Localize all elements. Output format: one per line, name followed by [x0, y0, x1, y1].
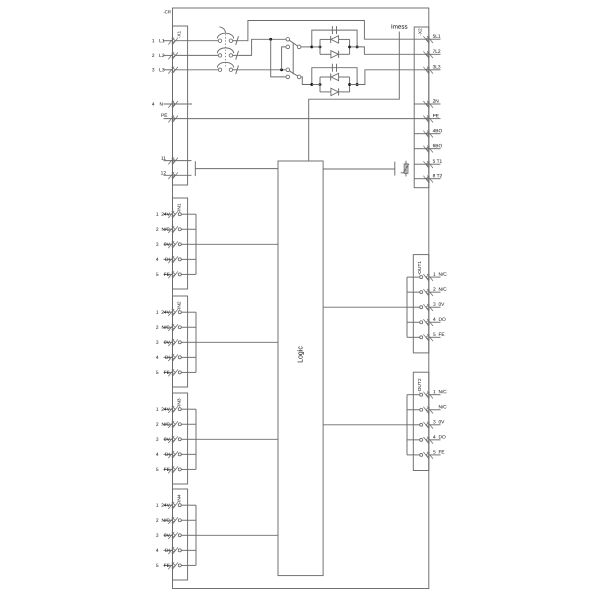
- wire L1 to top rail: [238, 21, 428, 41]
- node V2 rail right: [356, 83, 359, 86]
- svg-text:3: 3: [433, 419, 436, 425]
- terminal 5 T1 outer stub: [429, 163, 441, 165]
- IN1 pin 5 wire: [181, 273, 196, 275]
- svg-text:4: 4: [433, 434, 436, 440]
- terminal 11 stub: [164, 160, 192, 162]
- OUT2 terminal 5 FE outer stub: [429, 454, 441, 456]
- svg-text:DI: DI: [165, 257, 170, 263]
- node V2 loop right: [348, 83, 351, 86]
- IN4 pin 4: [178, 549, 181, 552]
- terminal 8 T2 connector symbol: [423, 176, 433, 184]
- svg-text:Logic: Logic: [297, 346, 304, 363]
- input block IN1: [173, 198, 188, 289]
- terminal 2N outer stub: [429, 103, 441, 105]
- node V2 loop left: [319, 83, 322, 86]
- svg-text:0V: 0V: [164, 340, 171, 346]
- OUT2 pin 0V wire: [407, 424, 420, 426]
- terminal 1 L1 stub: [164, 40, 173, 42]
- OUT1 pin N/C wire: [407, 276, 420, 278]
- OUT2 terminal N/C outer stub: [429, 409, 441, 411]
- svg-text:-IN3: -IN3: [176, 398, 182, 407]
- svg-text:-IN4: -IN4: [176, 494, 182, 503]
- svg-text:2N: 2N: [433, 99, 440, 105]
- changeover contact S2: [286, 68, 301, 79]
- node L2 junction: [269, 38, 272, 41]
- wire V1 output to terminal 7L2: [357, 47, 429, 54]
- svg-text:24V: 24V: [161, 310, 170, 316]
- node V1 rail left: [310, 45, 313, 48]
- svg-text:-IN1: -IN1: [176, 203, 182, 212]
- svg-text:FE: FE: [438, 450, 444, 456]
- IN1 terminal 5 FE stub: [164, 273, 173, 275]
- wire L3 row: [238, 69, 286, 71]
- output block OUT2: [413, 372, 429, 470]
- IN3 terminal 1 24V stub: [164, 408, 173, 410]
- svg-text:DI: DI: [165, 548, 170, 554]
- circuit breaker Q1 pole L3: [175, 62, 239, 74]
- supply bus 11-12: [194, 161, 196, 176]
- svg-text:-IN2: -IN2: [176, 301, 182, 310]
- IN3 pin 3 wire: [181, 438, 196, 440]
- IN1 pin 3: [178, 243, 181, 246]
- thyristor V1a: [330, 36, 332, 43]
- OUT1 terminal 5 FE connector symbol: [423, 334, 433, 342]
- OUT2 terminal 1 N/C connector symbol: [423, 392, 433, 400]
- IN3 pin 4: [178, 453, 181, 456]
- circuit breaker Q1 pole L2: [175, 48, 239, 60]
- IN4 terminal 3 0V connector symbol: [168, 532, 178, 540]
- IN4 terminal 1 24V stub: [164, 504, 173, 506]
- IN4 pin 2 wire: [181, 519, 196, 521]
- svg-text:5: 5: [433, 332, 436, 338]
- OUT1 terminal 3 0V outer stub: [429, 306, 441, 308]
- IN3 terminal 4 DI connector symbol: [168, 451, 178, 459]
- svg-text:PE: PE: [161, 113, 167, 119]
- IN4 terminal 3 0V stub: [164, 534, 173, 536]
- svg-text:3: 3: [156, 242, 159, 248]
- OUT1 pin 0V: [420, 306, 423, 309]
- svg-text:5: 5: [156, 563, 159, 569]
- svg-text:N/C: N/C: [162, 518, 171, 524]
- OUT2 pin FE: [420, 453, 423, 456]
- terminal block X2: [414, 27, 429, 188]
- IN3 pin 5: [178, 468, 181, 471]
- svg-text:FE: FE: [438, 332, 444, 338]
- IN2 terminal 1 24V connector symbol: [168, 309, 178, 317]
- svg-text:-X1: -X1: [176, 30, 182, 38]
- IN1 terminal 1 24V connector symbol: [168, 211, 178, 219]
- wire V2 output to terminal 3L3: [357, 70, 429, 85]
- IN3 terminal 3 0V connector symbol: [168, 436, 178, 444]
- terminal 3 L3 connector symbol: [168, 67, 178, 75]
- svg-text:1: 1: [156, 310, 159, 316]
- IN4 terminal 2 N/C stub: [164, 519, 173, 521]
- terminal 8 T2 stub: [414, 178, 429, 180]
- IN3 pin 1: [178, 408, 181, 411]
- wire S2 common to V2 rail: [301, 77, 312, 85]
- terminal 3L3 connector symbol: [423, 67, 433, 75]
- diode loop frame V2: [319, 77, 321, 92]
- svg-text:4: 4: [156, 355, 159, 361]
- IN1 terminal 4 DI connector symbol: [168, 256, 178, 264]
- svg-text:3: 3: [156, 437, 159, 443]
- terminal 2 L2 connector symbol: [168, 52, 178, 60]
- OUT1 pin FE wire: [407, 336, 420, 338]
- IN3 terminal 2 N/C stub: [164, 423, 173, 425]
- IN2 pin 5: [178, 371, 181, 374]
- svg-text:L1: L1: [159, 38, 165, 44]
- IN3 terminal 5 FE connector symbol: [168, 466, 178, 474]
- svg-text:5: 5: [433, 450, 436, 456]
- node V1 loop left: [319, 45, 322, 48]
- OUT2 terminal 1 N/C outer stub: [429, 394, 441, 396]
- terminal 7L2 connector symbol: [423, 51, 433, 59]
- OUT2 pin 0V: [420, 423, 423, 426]
- OUT1 pin 0V wire: [407, 306, 420, 308]
- bypass contact K1: [312, 30, 357, 47]
- svg-text:3: 3: [152, 67, 155, 73]
- IN2 terminal 3 0V stub: [164, 341, 173, 343]
- OUT2 internal bus: [406, 395, 408, 455]
- OUT2 pin N/C: [420, 408, 423, 411]
- OUT1 terminal 4 DO outer stub: [429, 321, 441, 323]
- svg-text:DI: DI: [165, 355, 170, 361]
- OUT1 internal bus: [406, 277, 408, 337]
- IN4 terminal 4 DI stub: [164, 549, 173, 551]
- terminal 2 L2 stub: [164, 54, 173, 56]
- IN2 pin 4 wire: [181, 356, 196, 358]
- input block IN3: [173, 393, 188, 484]
- terminal 7L2 outer stub: [429, 53, 441, 55]
- IN2 pin 5 wire: [181, 371, 196, 373]
- IN2 pin 3 wire: [181, 341, 196, 343]
- terminal 12 stub: [164, 174, 192, 176]
- OUT1 terminal 2 N/C connector symbol: [423, 289, 433, 297]
- IN2 terminal 3 0V connector symbol: [168, 339, 178, 347]
- device outline border: [173, 8, 429, 589]
- svg-text:2: 2: [156, 227, 159, 233]
- IN2 pin 2 wire: [181, 326, 196, 328]
- terminal 4BO stub: [414, 133, 429, 135]
- OUT1 pin FE: [420, 336, 423, 339]
- OUT1 pin DO: [420, 321, 423, 324]
- input block IN2: [173, 296, 188, 387]
- IN2 pin 3: [178, 341, 181, 344]
- terminal PE left connector symbol: [168, 115, 178, 123]
- svg-text:4: 4: [156, 548, 159, 554]
- IN4 pin 1 wire: [181, 504, 196, 506]
- terminal 6BO connector symbol: [423, 146, 433, 154]
- OUT2 pin N/C wire: [407, 409, 420, 411]
- IN1 pin 1: [178, 213, 181, 216]
- thermistor isolation bar: [394, 162, 396, 176]
- svg-text:1: 1: [433, 389, 436, 395]
- bypass contact K2: [312, 68, 357, 85]
- IN3 pin 3: [178, 438, 181, 441]
- svg-text:5: 5: [156, 370, 159, 376]
- IN1 pin 2: [178, 228, 181, 231]
- thyristor V2b: [331, 88, 338, 95]
- logic block U1: [278, 161, 323, 576]
- breaker linkage dashed: [225, 34, 227, 66]
- terminal 4 N connector symbol: [168, 101, 178, 109]
- wire V2 rail right: [350, 84, 358, 86]
- OUT1 terminal 1 N/C outer stub: [429, 276, 441, 278]
- IN3 terminal 1 24V connector symbol: [168, 406, 178, 414]
- svg-text:2: 2: [152, 53, 155, 59]
- OUT2 pin DO wire: [407, 439, 420, 441]
- IN2 pin 1: [178, 311, 181, 314]
- svg-text:1: 1: [156, 212, 159, 218]
- IN4 pin 3 wire: [181, 534, 196, 536]
- OUT2 terminal N/C connector symbol: [423, 407, 433, 415]
- svg-text:N/C: N/C: [438, 389, 447, 395]
- wire IN2 to logic: [196, 341, 278, 343]
- terminal 1 L1 connector symbol: [168, 38, 178, 46]
- IN2 terminal 2 N/C stub: [164, 326, 173, 328]
- svg-text:FE: FE: [164, 563, 170, 569]
- IN4 terminal 4 DI connector symbol: [168, 547, 178, 555]
- svg-text:L2: L2: [159, 53, 165, 59]
- OUT2 pin DO: [420, 438, 423, 441]
- svg-text:0V: 0V: [164, 437, 171, 443]
- IN2 terminal 4 DI stub: [164, 356, 173, 358]
- svg-text:0V: 0V: [164, 533, 171, 539]
- svg-text:1: 1: [156, 407, 159, 413]
- terminal 5L1 outer stub: [429, 38, 441, 40]
- svg-text:12: 12: [161, 170, 167, 176]
- terminal 4BO outer stub: [429, 133, 441, 135]
- output block OUT1: [413, 255, 429, 353]
- terminal 4 N stub: [164, 103, 193, 105]
- svg-text:2: 2: [433, 287, 436, 293]
- IN1 terminal 5 FE connector symbol: [168, 271, 178, 279]
- svg-text:Imess: Imess: [391, 24, 408, 31]
- OUT2 terminal 4 DO connector symbol: [423, 437, 433, 445]
- svg-text:24V: 24V: [161, 503, 170, 509]
- svg-text:2: 2: [156, 518, 159, 524]
- svg-text:N/C: N/C: [438, 404, 447, 410]
- IN3 terminal 2 N/C connector symbol: [168, 421, 178, 429]
- wire IN4 to logic: [196, 534, 278, 536]
- node V1 rail right: [356, 45, 359, 48]
- svg-text:24V: 24V: [161, 212, 170, 218]
- terminal 2N stub: [414, 103, 429, 105]
- IN1 terminal 2 N/C stub: [164, 228, 173, 230]
- wire PE rail across device: [164, 118, 429, 120]
- IN3 terminal 4 DI stub: [164, 453, 173, 455]
- IN3 pin 5 wire: [181, 468, 196, 470]
- wire L2 riser: [238, 39, 286, 55]
- svg-text:4: 4: [152, 102, 155, 108]
- IN2 terminal 2 N/C connector symbol: [168, 324, 178, 332]
- svg-text:1: 1: [152, 38, 155, 44]
- OUT1 terminal 2 N/C outer stub: [429, 291, 441, 293]
- IN1 terminal 3 0V connector symbol: [168, 241, 178, 249]
- svg-text:5: 5: [156, 467, 159, 473]
- svg-text:5L1: 5L1: [433, 34, 441, 40]
- IN4 terminal 5 FE stub: [164, 564, 173, 566]
- svg-text:DO: DO: [438, 317, 445, 323]
- terminal 6BO stub: [414, 148, 429, 150]
- svg-text:4: 4: [433, 317, 436, 323]
- wire L2 to S2 lower contact: [271, 39, 287, 77]
- wire L3 to S1 lower contact: [282, 47, 287, 70]
- svg-text:4: 4: [156, 452, 159, 458]
- IN2 pin 1 wire: [181, 311, 196, 313]
- svg-text:N/C: N/C: [438, 287, 447, 293]
- changeover linkage S1-S2: [292, 43, 294, 74]
- svg-text:3: 3: [156, 533, 159, 539]
- OUT1 pin DO wire: [407, 321, 420, 323]
- wire V1 rail right: [350, 46, 358, 48]
- wire logic to OUT2: [323, 424, 407, 426]
- wire logic to OUT1: [323, 306, 407, 308]
- svg-text:7L2: 7L2: [433, 49, 441, 55]
- IN4 terminal 5 FE connector symbol: [168, 562, 178, 570]
- svg-text:5: 5: [156, 272, 159, 278]
- svg-text:3: 3: [156, 340, 159, 346]
- IN1 pin 3 wire: [181, 243, 196, 245]
- IN3 pin 4 wire: [181, 453, 196, 455]
- OUT2 terminal 3 0V connector symbol: [423, 422, 433, 430]
- OUT2 terminal 4 DO outer stub: [429, 439, 441, 441]
- svg-text:4: 4: [156, 257, 159, 263]
- OUT1 pin N/C: [420, 276, 423, 279]
- svg-text:-OUT2: -OUT2: [417, 378, 423, 393]
- wire supply to logic: [195, 168, 278, 170]
- wire IN3 to logic: [196, 438, 278, 440]
- terminal block X1: [173, 26, 188, 185]
- svg-text:N: N: [160, 102, 164, 108]
- terminal 3L3 outer stub: [429, 69, 441, 71]
- wire IN1 to logic: [196, 243, 278, 245]
- IN1 pin 4 wire: [181, 258, 196, 260]
- svg-text:-X2: -X2: [417, 28, 423, 36]
- svg-text:2: 2: [156, 422, 159, 428]
- OUT2 pin N/C wire: [407, 394, 420, 396]
- IN2 pin 4: [178, 356, 181, 359]
- svg-text:DI: DI: [165, 452, 170, 458]
- circuit breaker Q1 pole L1: [175, 27, 239, 45]
- IN3 internal bus: [195, 409, 197, 469]
- OUT2 terminal 3 0V outer stub: [429, 424, 441, 426]
- OUT1 pin N/C: [420, 291, 423, 294]
- IN4 terminal 1 24V connector symbol: [168, 502, 178, 510]
- svg-text:24V: 24V: [161, 407, 170, 413]
- OUT1 terminal 4 DO connector symbol: [423, 319, 433, 327]
- IN3 terminal 5 FE stub: [164, 468, 173, 470]
- svg-text:3: 3: [433, 302, 436, 308]
- wire Imess to logic: [309, 32, 400, 162]
- terminal 5 T1 connector symbol: [423, 161, 433, 169]
- OUT1 terminal 5 FE outer stub: [429, 336, 441, 338]
- IN1 internal bus: [195, 214, 197, 274]
- IN1 terminal 2 N/C connector symbol: [168, 226, 178, 234]
- node V2 rail left: [310, 83, 313, 86]
- svg-text:L3: L3: [159, 67, 165, 73]
- terminal 4BO connector symbol: [423, 131, 433, 139]
- IN4 pin 2: [178, 519, 181, 522]
- IN1 pin 1 wire: [181, 213, 196, 215]
- svg-text:6BO: 6BO: [433, 143, 443, 149]
- wire logic to thermistor: [323, 168, 395, 170]
- svg-text:FE: FE: [164, 467, 170, 473]
- IN4 pin 1: [178, 504, 181, 507]
- OUT1 terminal 1 N/C connector symbol: [423, 274, 433, 282]
- svg-text:0V: 0V: [164, 242, 171, 248]
- svg-text:DO: DO: [438, 434, 445, 440]
- terminal 3 L3 stub: [164, 69, 173, 71]
- terminal 12 connector symbol: [168, 172, 178, 180]
- node V1 loop right: [348, 45, 351, 48]
- svg-text:5 T1: 5 T1: [433, 159, 443, 165]
- terminal 2N connector symbol: [423, 101, 433, 109]
- IN2 terminal 5 FE stub: [164, 371, 173, 373]
- IN3 pin 2: [178, 423, 181, 426]
- svg-text:PE: PE: [433, 113, 439, 119]
- terminal 8 T2 outer stub: [429, 178, 441, 180]
- wire V1 rail: [312, 46, 320, 48]
- OUT2 pin FE wire: [407, 454, 420, 456]
- OUT1 terminal 3 0V connector symbol: [423, 304, 433, 312]
- svg-text:-CR: -CR: [163, 9, 171, 14]
- IN3 pin 2 wire: [181, 423, 196, 425]
- wire V2 rail: [312, 84, 320, 86]
- svg-text:2: 2: [156, 325, 159, 331]
- svg-text:11: 11: [161, 156, 166, 162]
- IN3 pin 1 wire: [181, 408, 196, 410]
- terminal 6BO outer stub: [429, 148, 441, 150]
- svg-text:3L3: 3L3: [433, 64, 441, 70]
- IN1 pin 2 wire: [181, 228, 196, 230]
- IN4 pin 4 wire: [181, 549, 196, 551]
- terminal PE outer stub: [429, 118, 441, 120]
- IN1 terminal 1 24V stub: [164, 213, 173, 215]
- input block IN4: [173, 489, 188, 580]
- IN4 terminal 2 N/C connector symbol: [168, 517, 178, 525]
- svg-text:4BO: 4BO: [433, 128, 443, 134]
- wire S1 common to V1 rail: [301, 46, 312, 48]
- svg-text:0V: 0V: [438, 302, 445, 308]
- svg-text:N/C: N/C: [162, 325, 171, 331]
- svg-text:FE: FE: [164, 272, 170, 278]
- IN4 pin 5: [178, 564, 181, 567]
- terminal 11 connector symbol: [168, 157, 178, 165]
- thyristor V2a: [330, 73, 332, 80]
- IN2 terminal 4 DI connector symbol: [168, 354, 178, 362]
- svg-text:N/C: N/C: [162, 227, 171, 233]
- IN2 internal bus: [195, 312, 197, 372]
- IN1 pin 5: [178, 273, 181, 276]
- svg-text:FE: FE: [164, 370, 170, 376]
- IN1 terminal 3 0V stub: [164, 243, 173, 245]
- terminal 5L1 connector symbol: [423, 36, 433, 44]
- OUT1 pin N/C wire: [407, 291, 420, 293]
- svg-text:1: 1: [433, 272, 436, 278]
- node L3 junction: [280, 68, 283, 71]
- svg-text:1: 1: [156, 503, 159, 509]
- IN3 terminal 3 0V stub: [164, 438, 173, 440]
- svg-text:N/C: N/C: [438, 272, 447, 278]
- terminal 5 T1 stub: [414, 163, 429, 165]
- OUT2 terminal 5 FE connector symbol: [423, 452, 433, 460]
- svg-text:8 T2: 8 T2: [433, 173, 443, 179]
- svg-text:-OUT1: -OUT1: [417, 261, 423, 276]
- thyristor V1b: [331, 51, 338, 58]
- IN1 pin 4: [178, 258, 181, 261]
- OUT2 pin N/C: [420, 393, 423, 396]
